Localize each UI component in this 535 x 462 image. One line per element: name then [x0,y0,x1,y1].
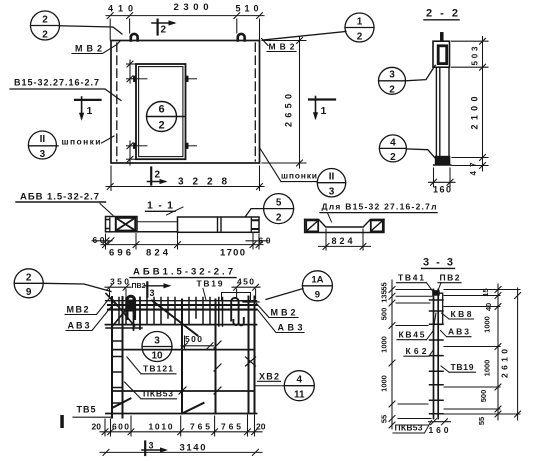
svg-text:2: 2 [42,15,48,26]
leader bar to circle 4/11 [255,385,285,387]
section marker 3 bottom [142,441,168,456]
2-2 dim line 503/2100/47 [480,37,486,172]
panel outline [111,41,260,164]
2-2 bottom sill (solid) [434,156,451,165]
keyway dashed line left [116,43,118,161]
dim label 503 [471,46,480,66]
svg-text:60: 60 [93,235,105,245]
callout circle 3/2 [379,65,436,95]
dim 350 [105,277,131,299]
svg-text:ТВ19: ТВ19 [197,279,223,289]
svg-text:ХВ2: ХВ2 [259,372,279,382]
1-1 left block [106,217,138,232]
svg-text:1: 1 [87,105,93,117]
svg-text:510: 510 [236,4,259,14]
svg-text:55: 55 [380,282,389,290]
title 2-2 [424,8,459,20]
dim label 2650 [284,94,294,127]
svg-text:АБВ1.5-32-2.7: АБВ1.5-32-2.7 [133,267,233,278]
svg-text:1: 1 [321,105,327,117]
svg-text:АВ3: АВ3 [68,321,90,331]
section marker 1 left [75,97,101,121]
dim label 410 [108,4,133,14]
svg-text:2610: 2610 [500,349,510,378]
3-3 outer dim 2610 [500,288,521,420]
stray mark left margin [60,415,64,428]
label МВ2 top-left [72,41,121,54]
ladder diagonal bottom-left [113,399,131,408]
dim label 1700 [220,248,245,259]
dim 300 bottom (door) [127,141,138,165]
1-1 dim 60 left [92,235,114,245]
keyway dashed line right [254,43,256,161]
svg-text:МВ2: МВ2 [269,42,295,52]
svg-text:3: 3 [150,288,155,298]
label ТВ19 top [197,279,223,301]
callout circle 1/2 [263,13,374,43]
2-2 shaft walls [436,67,449,160]
svg-text:ТВ5: ТВ5 [77,405,96,415]
svg-text:55: 55 [380,415,389,423]
svg-text:3228: 3228 [178,177,227,188]
3-3 left dim line [389,280,395,429]
svg-text:500: 500 [479,390,488,403]
label К62 [404,346,433,356]
svg-text:4: 4 [390,138,396,149]
svg-text:ПКВ53: ПКВ53 [395,423,423,433]
cage vertical bars [112,297,255,418]
dim label 47 [469,162,478,176]
svg-text:2: 2 [158,120,164,132]
door anchor tab top-right [185,76,197,82]
svg-text:АВ3: АВ3 [278,323,303,333]
callout circle 4/11 [284,371,314,401]
dim 2650 right [262,36,306,168]
svg-text:3: 3 [389,70,395,81]
callout circle II/3 left (шпонки) [28,131,58,160]
svg-text:350: 350 [110,277,129,287]
svg-text:11: 11 [294,390,305,401]
dim label 824 [146,248,169,259]
svg-text:АБВ 1.5-32-2.7: АБВ 1.5-32-2.7 [20,192,99,203]
svg-text:КВ8: КВ8 [451,309,472,319]
detail dim 824 [319,229,371,250]
label В15-32.27.16-2.7 [10,78,121,101]
svg-text:55: 55 [477,417,486,425]
section marker 2 top [152,20,177,36]
stirrup ticks top band [119,298,223,327]
svg-text:450: 450 [237,277,254,287]
svg-text:410: 410 [108,4,133,14]
3-3 member verticals [434,290,439,419]
callout circle 2/9 [14,269,111,298]
svg-text:10: 10 [151,351,163,362]
thin outline box above band [222,293,251,302]
svg-text:шпонки: шпонки [62,137,101,147]
svg-text:1000: 1000 [380,375,389,392]
3-3 dim 160 [429,419,451,435]
svg-text:2: 2 [389,85,395,96]
svg-text:500: 500 [380,308,389,321]
svg-text:600: 600 [112,421,129,431]
svg-text:20: 20 [92,421,102,431]
svg-text:40: 40 [484,303,493,311]
cage X brace left cluster [106,294,135,327]
svg-text:9: 9 [315,290,320,301]
detail bar outline [305,219,384,232]
2-2 dim 160 bottom [429,168,456,195]
callout circle 5/2 [246,194,294,224]
svg-text:2: 2 [161,25,167,36]
svg-text:15: 15 [481,288,490,296]
svg-text:47: 47 [469,162,478,176]
top dimension line 410/2300/510 [106,13,264,40]
svg-text:1: 1 [357,17,363,28]
svg-text:765: 765 [190,421,210,431]
cage lifting hook right (elevation) [231,298,244,326]
circle 6/2 in door [147,102,185,132]
dim 3228 bottom [106,166,264,191]
door anchor tab bottom-left [133,143,147,149]
svg-text:ПКВ53: ПКВ53 [143,389,173,399]
svg-text:ТВ19: ТВ19 [451,362,474,372]
svg-text:696: 696 [109,248,131,259]
svg-text:1700: 1700 [220,248,245,259]
svg-text:765: 765 [221,421,241,431]
svg-text:824: 824 [146,248,169,259]
band extra line left cluster [106,327,142,329]
2-2 door frame profile (thick) [438,46,447,64]
cage bottom dims row 20/600/1010/765/765/20 [100,415,262,436]
svg-text:6: 6 [158,104,164,116]
cage lifting loop left (elevation) [127,296,135,318]
svg-text:АВ3: АВ3 [448,327,469,337]
callout circle 1А/9 [266,271,332,301]
cage dim 3140 [100,443,262,456]
svg-text:5: 5 [276,198,282,209]
svg-text:1А: 1А [311,275,323,286]
2-2 top stub bar [440,32,443,41]
door anchor tab bottom-right [185,143,197,149]
callout circle 2/2 [31,11,123,41]
label АВ3 (3-3) [441,327,472,337]
dim 300 top (door) [127,60,138,83]
detail left X block [306,220,318,231]
3-3 left dim labels [380,282,389,423]
svg-text:503: 503 [471,46,480,66]
svg-text:1010: 1010 [149,421,173,431]
svg-text:МВ2: МВ2 [67,305,89,315]
ladder rungs left pair [112,341,123,403]
svg-text:1000: 1000 [483,360,492,377]
dim label 510 [236,4,259,14]
label Для В15-32 27.16-2.7л [320,202,437,223]
3-3 channel piece right [438,293,443,324]
svg-text:шпонки: шпонки [281,171,317,181]
title 3-3 [422,257,455,269]
label АБВ 1.5-32-2.7 (left) [16,192,106,203]
2-2 head box [433,41,450,67]
label ТВ121 [127,357,176,374]
leader near 1-1 title [167,207,184,215]
diagonal bar bottom-middle [184,403,204,413]
svg-text:3: 3 [329,187,335,198]
label МВ2 cage-right [257,304,299,318]
svg-text:К62: К62 [406,346,427,356]
svg-text:160: 160 [429,425,449,435]
svg-text:II: II [40,134,46,145]
3-3 rung ticks [430,300,444,414]
dim 450 [232,277,260,300]
label ПВ2 (3-3) [438,273,461,292]
detail right X block [371,220,383,231]
svg-text:3-3: 3-3 [423,257,453,269]
svg-text:9: 9 [26,287,32,298]
svg-text:ТВ41: ТВ41 [398,273,424,283]
label ТВ41 [397,273,434,292]
door opening outer frame [136,64,186,159]
svg-text:1-1: 1-1 [147,200,173,212]
lifting loop МВ2 right [238,34,245,41]
3-3 right inner dim line [495,284,501,420]
svg-text:3140: 3140 [180,443,206,454]
label ТВ19 (3-3) [441,362,476,372]
svg-text:824: 824 [332,236,353,246]
svg-text:3: 3 [149,441,154,451]
label ПКВ53 [125,382,177,399]
svg-text:4: 4 [297,375,303,386]
svg-text:2650: 2650 [284,94,294,127]
dashed bar right end [243,301,259,303]
svg-text:2100: 2100 [470,97,480,130]
label ХВ2 [258,372,281,382]
dim label 696 [109,248,131,259]
leader from АБВ label to 1-1 [100,204,113,216]
label МВ2 cage-left [65,298,110,315]
dim label 3228 [178,177,227,188]
label ПКВ53 (3-3) [393,421,432,434]
door anchor tab top-left [133,76,147,82]
svg-text:ПВ2: ПВ2 [132,283,146,290]
svg-text:2: 2 [155,170,161,181]
svg-text:1000: 1000 [483,316,492,333]
lifting loop МВ2 left [131,34,138,41]
label МВ2 top-right [262,39,297,52]
svg-text:2: 2 [390,152,396,163]
svg-text:2: 2 [26,273,32,284]
svg-text:КВ45: КВ45 [399,330,425,340]
dim labels row1 [92,421,266,431]
svg-text:2-2: 2-2 [426,8,458,20]
circle 3/10 [142,332,172,362]
1-1 right block [178,217,260,232]
label КВ45 [397,313,436,340]
svg-text:ПВ2: ПВ2 [440,273,460,283]
1-1 dims 696/824/1700/60 [101,234,263,250]
3-3 right extension lines [444,290,520,415]
svg-text:135: 135 [380,290,389,303]
title АБВ1.5-32-2.7 [130,267,236,278]
svg-text:500: 500 [185,334,202,344]
label АВ3 cage-right [257,309,304,333]
dim label 2300 [174,2,209,13]
label КВ8 [442,309,474,319]
section marker 2 bottom [148,168,168,185]
svg-text:3: 3 [40,149,46,160]
svg-text:II: II [329,172,335,183]
svg-text:2: 2 [276,213,282,224]
2-2 dim extension lines [452,41,489,165]
svg-text:2300: 2300 [174,2,209,13]
label АВ3 cage-left [66,307,111,331]
door opening inner frame [139,67,183,157]
cage cluster bars (left 600 zone) [134,297,141,330]
label ТВ5 [73,405,113,418]
callout circle 4/2 [379,135,435,163]
cage horizontal bars [106,301,257,414]
dim label 2100 [470,97,480,130]
svg-text:3: 3 [154,336,160,347]
1-1 dim 60 right [246,236,271,246]
3-3 top plate dark [432,290,440,296]
svg-text:1000: 1000 [380,336,389,353]
svg-text:2: 2 [42,30,48,41]
title 1-1 [146,200,176,212]
svg-text:2: 2 [357,32,363,43]
dim 500 (diagonal) [181,334,214,349]
weld flags right bars [179,341,256,394]
callout circle II/3 right [317,169,345,198]
label шпонки left [62,136,115,147]
svg-text:МВ2: МВ2 [75,44,102,54]
svg-text:В15-32.27.16-2.7: В15-32.27.16-2.7 [14,78,99,88]
section marker 1 right [309,97,335,121]
1-1 opening recess [137,217,178,232]
label шпонки right + circle II/3 [260,148,318,182]
3-3 left extension lines [396,290,432,426]
svg-text:160: 160 [433,185,451,195]
cage diagonal bar (bent) [152,301,198,336]
svg-text:МВ2: МВ2 [271,308,296,318]
label ПВ2 small [132,283,146,290]
svg-text:20: 20 [256,421,266,431]
svg-text:ТВ121: ТВ121 [143,364,173,374]
section marker 3 top [145,282,172,298]
svg-text:Для В15-32 27.16-2.7л: Для В15-32 27.16-2.7л [322,202,437,212]
3-3 right inner dim labels [477,288,493,425]
